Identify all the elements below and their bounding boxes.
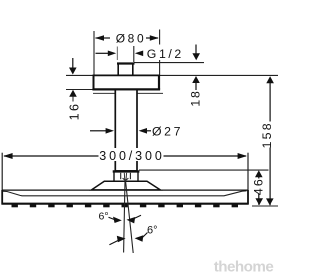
dimension Ø80 line + arrows [96, 37, 111, 39]
dimension Ø80 extension line right (broken by G1/2 text) [159, 30, 161, 45]
dimension 158 line [266, 76, 274, 83]
dimension 18 upper arrow (down) [195, 45, 197, 56]
svg-text:6°: 6° [147, 225, 158, 237]
svg-text:300/300: 300/300 [99, 149, 164, 163]
svg-text:6°: 6° [99, 211, 109, 223]
connector top extension line [134, 62, 204, 64]
dimension 300/300 line left segment with arrow [4, 155, 99, 157]
dimension 16 upper arrow (down) [72, 58, 74, 69]
svg-text:46: 46 [251, 177, 265, 195]
svg-text:thehome: thehome [214, 258, 274, 275]
spray angle line right (6 deg) [126, 181, 134, 254]
ceiling plate top extension line (right of plate to 158 dim) [160, 74, 278, 76]
bottom face [2, 203, 249, 205]
nut inner lines [120, 173, 122, 179]
svg-text:G1/2: G1/2 [147, 47, 184, 61]
dimension Ø27 arrows [90, 130, 106, 132]
dimension 300/300 label [100, 148, 163, 161]
union nut [114, 172, 138, 182]
dimension 18 lower arrow (up) [192, 76, 200, 83]
spray lines inside nut [123, 173, 126, 181]
G1/2 connector block [118, 63, 133, 75]
top surface line [2, 189, 248, 191]
pipe [115, 90, 137, 171]
head bottom extension line [252, 205, 278, 207]
svg-text:Ø80: Ø80 [116, 32, 146, 46]
left edge [1, 190, 3, 205]
svg-text:16: 16 [68, 102, 82, 121]
svg-text:Ø27: Ø27 [152, 125, 183, 139]
plate lower rim line [93, 92, 163, 94]
dimension G1/2 arrows [96, 52, 110, 54]
dimension Ø80 extension line left [93, 31, 95, 75]
nut top extension line [139, 169, 269, 171]
dimension G1/2 extension line left [116, 47, 118, 61]
dimension 300/300 line right segment with arrow [164, 155, 247, 157]
nozzles [12, 204, 239, 207]
right edge [247, 190, 249, 205]
shower head plate body [2, 190, 249, 205]
far edge (perspective) line [3, 191, 247, 196]
head right extension line [247, 153, 249, 190]
spray angle line left (near vertical) [124, 181, 125, 253]
dimension 46 line [255, 170, 263, 177]
ceiling escutcheon plate [93, 76, 159, 89]
ceiling plate top extension line (left of plate) [66, 74, 93, 76]
svg-text:18: 18 [189, 89, 203, 106]
dimension 16 lower arrow (up) [66, 89, 93, 91]
dimension G1/2 extension line right [133, 46, 135, 62]
head left extension line [1, 153, 3, 190]
svg-text:158: 158 [260, 121, 274, 148]
cone boss on head [92, 181, 161, 190]
nut aerator arc [123, 178, 129, 180]
